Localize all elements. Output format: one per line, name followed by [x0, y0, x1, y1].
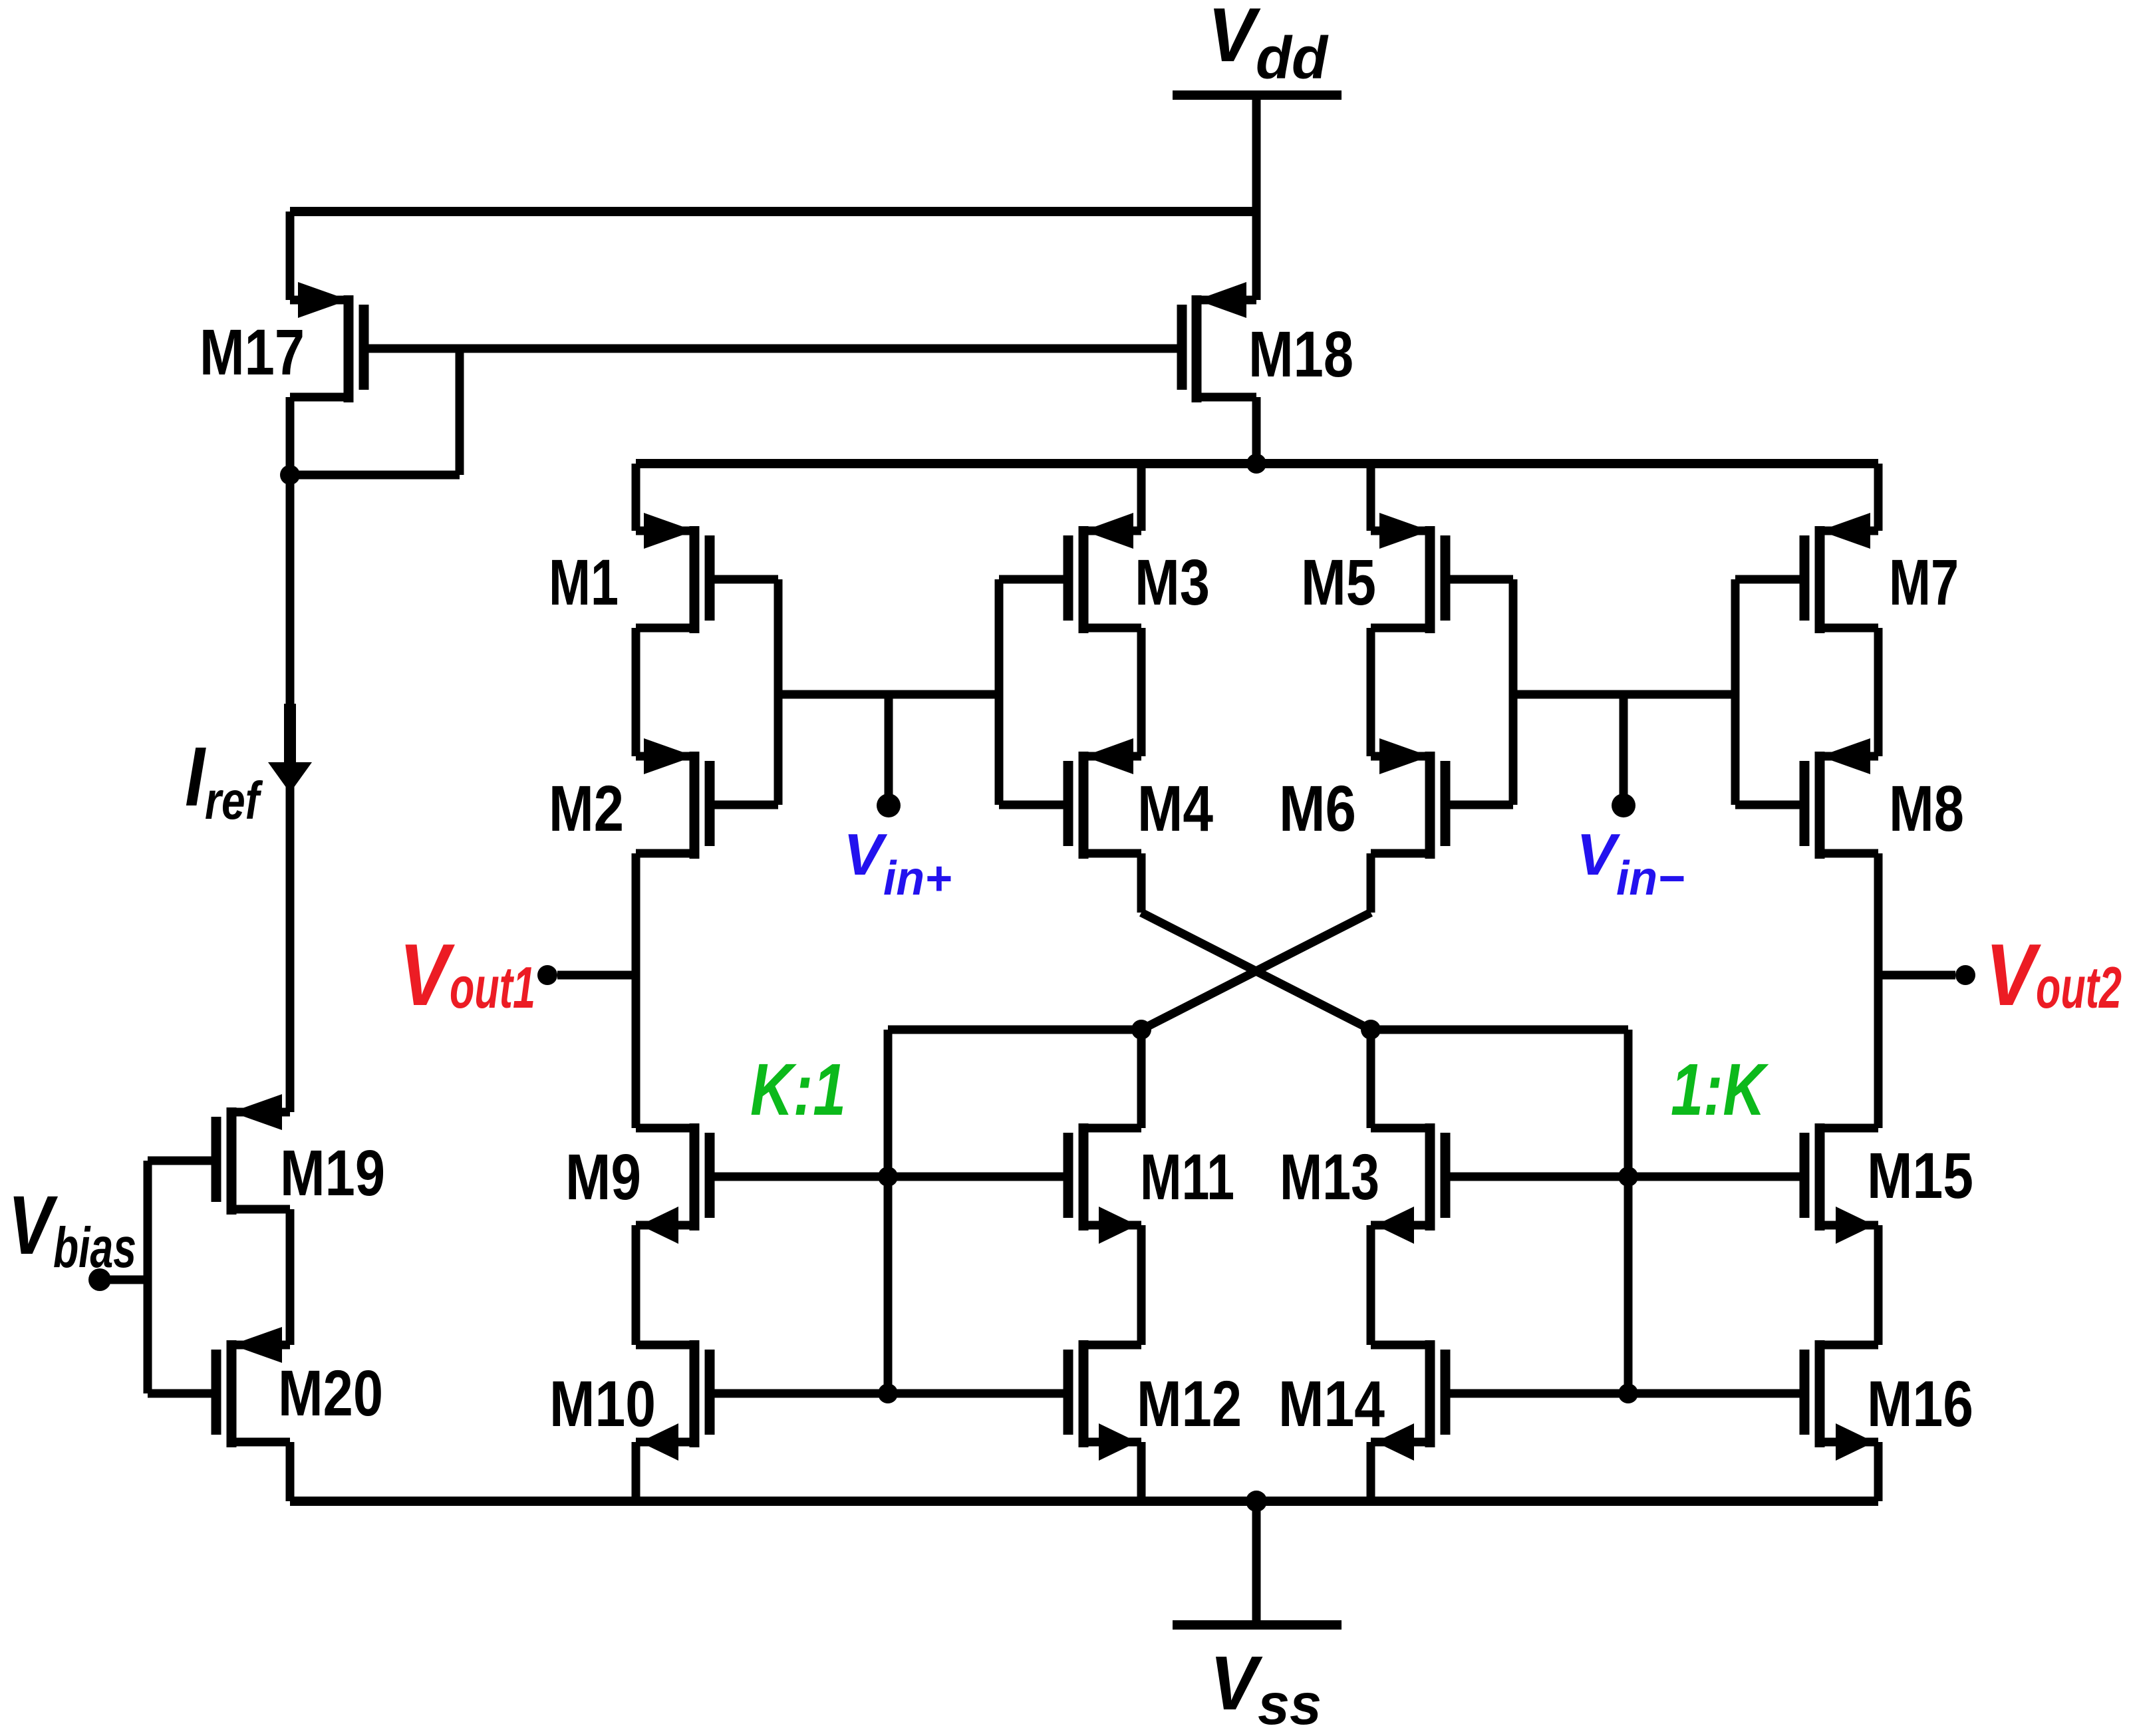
current arrow Iref: [268, 704, 312, 793]
wire M17 drain diode connection: [290, 349, 460, 475]
wire M18 drain to inner rail: [1252, 397, 1261, 464]
power rail Vss symbol: [1173, 1501, 1342, 1625]
transistor M18: [1177, 282, 1257, 402]
wire left node to M11 drain: [1137, 1030, 1146, 1128]
transistor M16: [1800, 1340, 1879, 1461]
transistor M13: [1371, 1123, 1451, 1244]
svg-text:M20: M20: [278, 1357, 383, 1429]
svg-text:M3: M3: [1135, 546, 1210, 619]
wire M10 source to Vss rail: [632, 1442, 640, 1501]
svg-text:M19: M19: [280, 1137, 385, 1209]
node left cross junction: [1131, 1020, 1151, 1040]
transistor M14: [1371, 1340, 1451, 1461]
wire M13-M15 gate line: [1445, 1173, 1804, 1181]
wire M12 source to Vss rail: [1137, 1442, 1146, 1501]
svg-text:M16: M16: [1867, 1368, 1973, 1440]
node left gate feed lower: [878, 1383, 898, 1403]
transistor M10: [636, 1340, 715, 1461]
transistor M2: [636, 738, 715, 859]
wire M14 source to Vss rail: [1367, 1442, 1375, 1501]
wire M14-M16 gate line: [1445, 1389, 1804, 1398]
transistor M8: [1800, 738, 1879, 859]
wire M4 drain cross to right node: [1141, 853, 1371, 1030]
node Vss rail junction: [1246, 1491, 1267, 1512]
terminal Vout1: [537, 965, 636, 985]
node right gate feed upper: [1618, 1167, 1638, 1187]
transistor M12: [1064, 1340, 1142, 1461]
wire M9 source to M10 drain: [632, 1225, 640, 1345]
terminal Vout2: [1878, 965, 1975, 985]
svg-text:M1: M1: [549, 546, 619, 619]
svg-text:M15: M15: [1867, 1139, 1973, 1212]
wire M11 source to M12 drain: [1137, 1225, 1146, 1345]
transistor M9: [636, 1123, 715, 1244]
svg-text:M17: M17: [200, 316, 305, 388]
node M17 drain junction: [280, 465, 300, 485]
svg-text:M13: M13: [1280, 1141, 1379, 1213]
transistor M6: [1371, 738, 1451, 859]
wire M19 drain to M20 source: [286, 1209, 295, 1345]
wire M8 drain to M15 drain Vout2 column: [1874, 853, 1883, 1128]
wire M10-M12 gate line: [710, 1389, 1068, 1398]
transistor M17: [290, 282, 369, 402]
terminal Vin+: [877, 694, 901, 817]
svg-text:M11: M11: [1140, 1141, 1234, 1213]
wire M6 drain cross to left node: [1141, 853, 1371, 1030]
transistor M7: [1800, 513, 1879, 633]
node right cross junction: [1361, 1020, 1381, 1040]
transistor M3: [1064, 513, 1142, 633]
node right gate feed lower: [1618, 1383, 1638, 1403]
svg-text:M8: M8: [1889, 772, 1964, 845]
transistor M11: [1064, 1123, 1142, 1244]
wire Iref from M17 drain to M19 source: [286, 475, 295, 1112]
svg-text:1:K: 1:K: [1671, 1049, 1769, 1131]
svg-text:M9: M9: [565, 1141, 641, 1213]
wire M17-M18 gate line: [364, 345, 1182, 353]
power rail Vdd symbol: [1173, 95, 1342, 300]
transistor M4: [1064, 738, 1142, 859]
wire M3 source drop: [1137, 464, 1146, 531]
wire M1 drain to M2 source: [632, 628, 640, 756]
wire Vin+ gate join: [778, 690, 999, 699]
svg-text:M18: M18: [1248, 318, 1353, 390]
wire M3 drain to M4 source: [1137, 628, 1146, 756]
node left gate feed upper: [878, 1167, 898, 1187]
wire bottom Vss rail: [290, 1497, 1878, 1506]
wire Vbias gate tie: [148, 1161, 216, 1393]
wire M16 source to Vss rail: [1874, 1442, 1883, 1501]
wire M7 drain to M8 source: [1874, 628, 1883, 756]
wire Vin- gate join: [1513, 690, 1735, 699]
wire M5 drain to M6 source: [1367, 628, 1375, 756]
svg-text:M5: M5: [1301, 546, 1376, 619]
terminal Vbias: [88, 1268, 148, 1291]
svg-text:M10: M10: [549, 1368, 656, 1440]
wire M15 source to M16 drain: [1874, 1225, 1883, 1345]
transistor M5: [1371, 513, 1451, 633]
wire M5 source drop: [1367, 464, 1375, 531]
svg-text:M7: M7: [1889, 546, 1959, 619]
wire M9-M11 gate line: [710, 1173, 1068, 1181]
svg-text:M12: M12: [1137, 1368, 1242, 1440]
transistor M15: [1800, 1123, 1879, 1244]
wire M7-M8 gate tie: [1735, 579, 1804, 805]
terminal Vin-: [1612, 694, 1635, 817]
wire M3-M4 gate tie: [999, 579, 1068, 805]
wire M2 drain to M9 drain Vout1 column: [632, 853, 640, 1128]
svg-text:K:1: K:1: [750, 1049, 846, 1131]
transistor M1: [636, 513, 715, 633]
wire M1-M2 gate tie: [710, 579, 778, 805]
svg-text:M4: M4: [1137, 772, 1213, 845]
svg-text:M14: M14: [1278, 1368, 1385, 1440]
node inner rail junction: [1246, 454, 1266, 474]
wire inner source rail: [636, 464, 1878, 531]
transistor M19: [212, 1094, 291, 1215]
wire M20 drain to Vss rail: [286, 1442, 295, 1501]
wire right node to right mirror gates: [1371, 1030, 1628, 1393]
wire M5-M6 gate tie: [1445, 579, 1513, 805]
transistor M20: [212, 1327, 291, 1447]
wire M13 source to M14 drain: [1367, 1225, 1375, 1345]
wire left node to left mirror gates: [888, 1030, 1141, 1393]
wire right node to M13 drain: [1367, 1030, 1375, 1128]
wire top rail M17 source to Vdd: [290, 212, 1256, 300]
svg-text:M6: M6: [1279, 772, 1356, 845]
svg-text:M2: M2: [549, 772, 624, 845]
